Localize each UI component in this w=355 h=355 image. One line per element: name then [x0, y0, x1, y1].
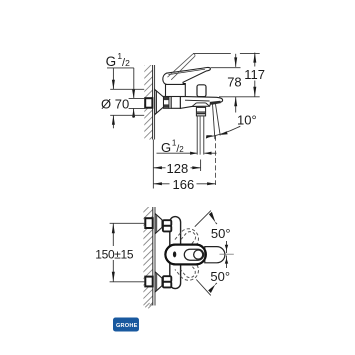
shower hose connection lines [197, 116, 204, 155]
extension tick for 128 dimension [200, 160, 202, 172]
lever handle (solid position) [163, 67, 211, 84]
stream centerline (dashed) [215, 136, 217, 185]
G1/2 leader underline [107, 67, 134, 69]
extension lines for diameter 70 [110, 89, 144, 115]
water stream lines [213, 104, 221, 139]
union nut (upper inlet) [163, 220, 171, 231]
svg-text:Ø 70: Ø 70 [101, 96, 129, 111]
inner circle [194, 250, 203, 259]
aerator outlet (dark) [210, 101, 221, 105]
handle grip slot (inner capsule) [184, 249, 203, 260]
lever handle (raised phantom position) [168, 54, 196, 80]
dimension 166 [153, 177, 215, 191]
in-wall union square (lower inlet) [145, 277, 152, 287]
escutcheon cone (upper inlet) [155, 214, 162, 234]
dimension line for G1/2 thread [132, 68, 135, 118]
handle swing phantom (up 50deg, dashed) [175, 225, 203, 253]
wall face extension line (below top figure) [152, 140, 154, 189]
svg-text:117: 117 [244, 67, 265, 82]
mixer body capsule (front view) [170, 217, 181, 289]
handle outer capsule (outline redraw) [165, 245, 206, 265]
in-wall union square (upper inlet) [145, 218, 152, 228]
handle swing phantom (down 50deg, dashed) [175, 257, 203, 285]
svg-text:50°: 50° [211, 226, 231, 241]
extension line B (lever top) [211, 67, 241, 69]
lever tip reference tick [220, 241, 234, 268]
dark dash marker on cap [173, 251, 176, 257]
svg-text:166: 166 [173, 177, 195, 192]
svg-text:128: 128 [167, 161, 189, 176]
svg-text:78: 78 [227, 75, 241, 90]
dimension 150 plus-minus 15 [110, 223, 145, 281]
svg-text:10°: 10° [237, 113, 257, 128]
diverter knob on spout [197, 85, 206, 97]
wall hatching (side view, top figure) [144, 65, 154, 140]
handle outer capsule (fill) [165, 245, 206, 265]
G1/2 lower dimension with arrows [157, 152, 217, 155]
svg-text:150±15: 150±15 [95, 247, 134, 261]
union nut with dark bands [164, 96, 170, 108]
wall hatching (front view, bottom figure) [143, 207, 155, 308]
upper cartridge block [165, 84, 186, 97]
mixer body cylinder [171, 96, 180, 108]
upper 50deg leader and arrow [195, 211, 217, 227]
dimension 128 [153, 161, 200, 175]
dimension 78 [234, 54, 237, 113]
escutcheon cone (top figure) [155, 90, 164, 115]
union nut (lower inlet) [163, 276, 171, 287]
10 degree angle arc with arrows [206, 126, 240, 138]
extension line A (raised lever top) [193, 53, 260, 55]
dimension line for diameter 70 [112, 68, 115, 128]
extension line C (spout top level) [219, 96, 260, 98]
svg-text:50°: 50° [210, 269, 230, 284]
handle stem (toward viewer) [205, 247, 225, 263]
svg-text:G1/2: G1/2 [161, 138, 184, 155]
svg-text:GROHE: GROHE [116, 323, 138, 329]
GROHE logo [113, 318, 139, 332]
lower 50deg leader and arrow [196, 280, 217, 296]
escutcheon cone (lower inlet) [155, 272, 162, 292]
spout inner bottom line [185, 99, 210, 102]
extension lines for G1/2 thread [129, 98, 145, 108]
connection ring [169, 96, 171, 108]
svg-text:G1/2: G1/2 [106, 51, 131, 69]
in-wall union square (top figure) [145, 98, 152, 108]
hand-shower outlet bell and nipple [192, 103, 209, 116]
dimension 117 [253, 53, 256, 97]
spout (side view) [180, 97, 222, 109]
